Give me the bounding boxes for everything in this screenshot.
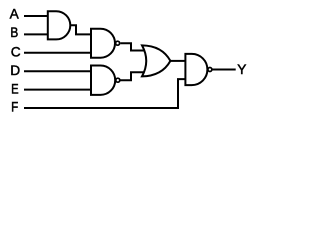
wire D bbox=[24, 70, 92, 72]
svg-text:C: C bbox=[11, 45, 21, 60]
wire G4 output to G5 input bbox=[170, 60, 186, 62]
wire G3 output to G4 input bbox=[120, 72, 149, 80]
NAND gate G3 (inputs D,E) bbox=[91, 66, 120, 95]
svg-text:F: F bbox=[11, 100, 18, 115]
NAND gate G5 (inputs from G4 and F, output Y) bbox=[185, 54, 212, 85]
AND gate G1 (inputs A,B) bbox=[48, 11, 71, 39]
wire B bbox=[24, 33, 49, 35]
wire G5 output to Y bbox=[212, 69, 235, 71]
svg-text:D: D bbox=[10, 63, 20, 78]
svg-text:E: E bbox=[11, 81, 19, 96]
svg-text:Y: Y bbox=[237, 62, 246, 77]
OR gate G4 (inputs from G2 and G3) bbox=[142, 45, 170, 76]
wire G1 output to G2 input bbox=[70, 25, 92, 34]
wire C bbox=[24, 52, 92, 54]
wire E bbox=[24, 89, 92, 91]
svg-text:B: B bbox=[10, 25, 18, 40]
wire A bbox=[24, 15, 49, 17]
wire F bbox=[24, 79, 186, 108]
wire G2 output to G4 input bbox=[120, 43, 149, 50]
NAND gate G2 (inputs from G1 and C) bbox=[91, 29, 120, 58]
svg-text:A: A bbox=[10, 7, 20, 22]
